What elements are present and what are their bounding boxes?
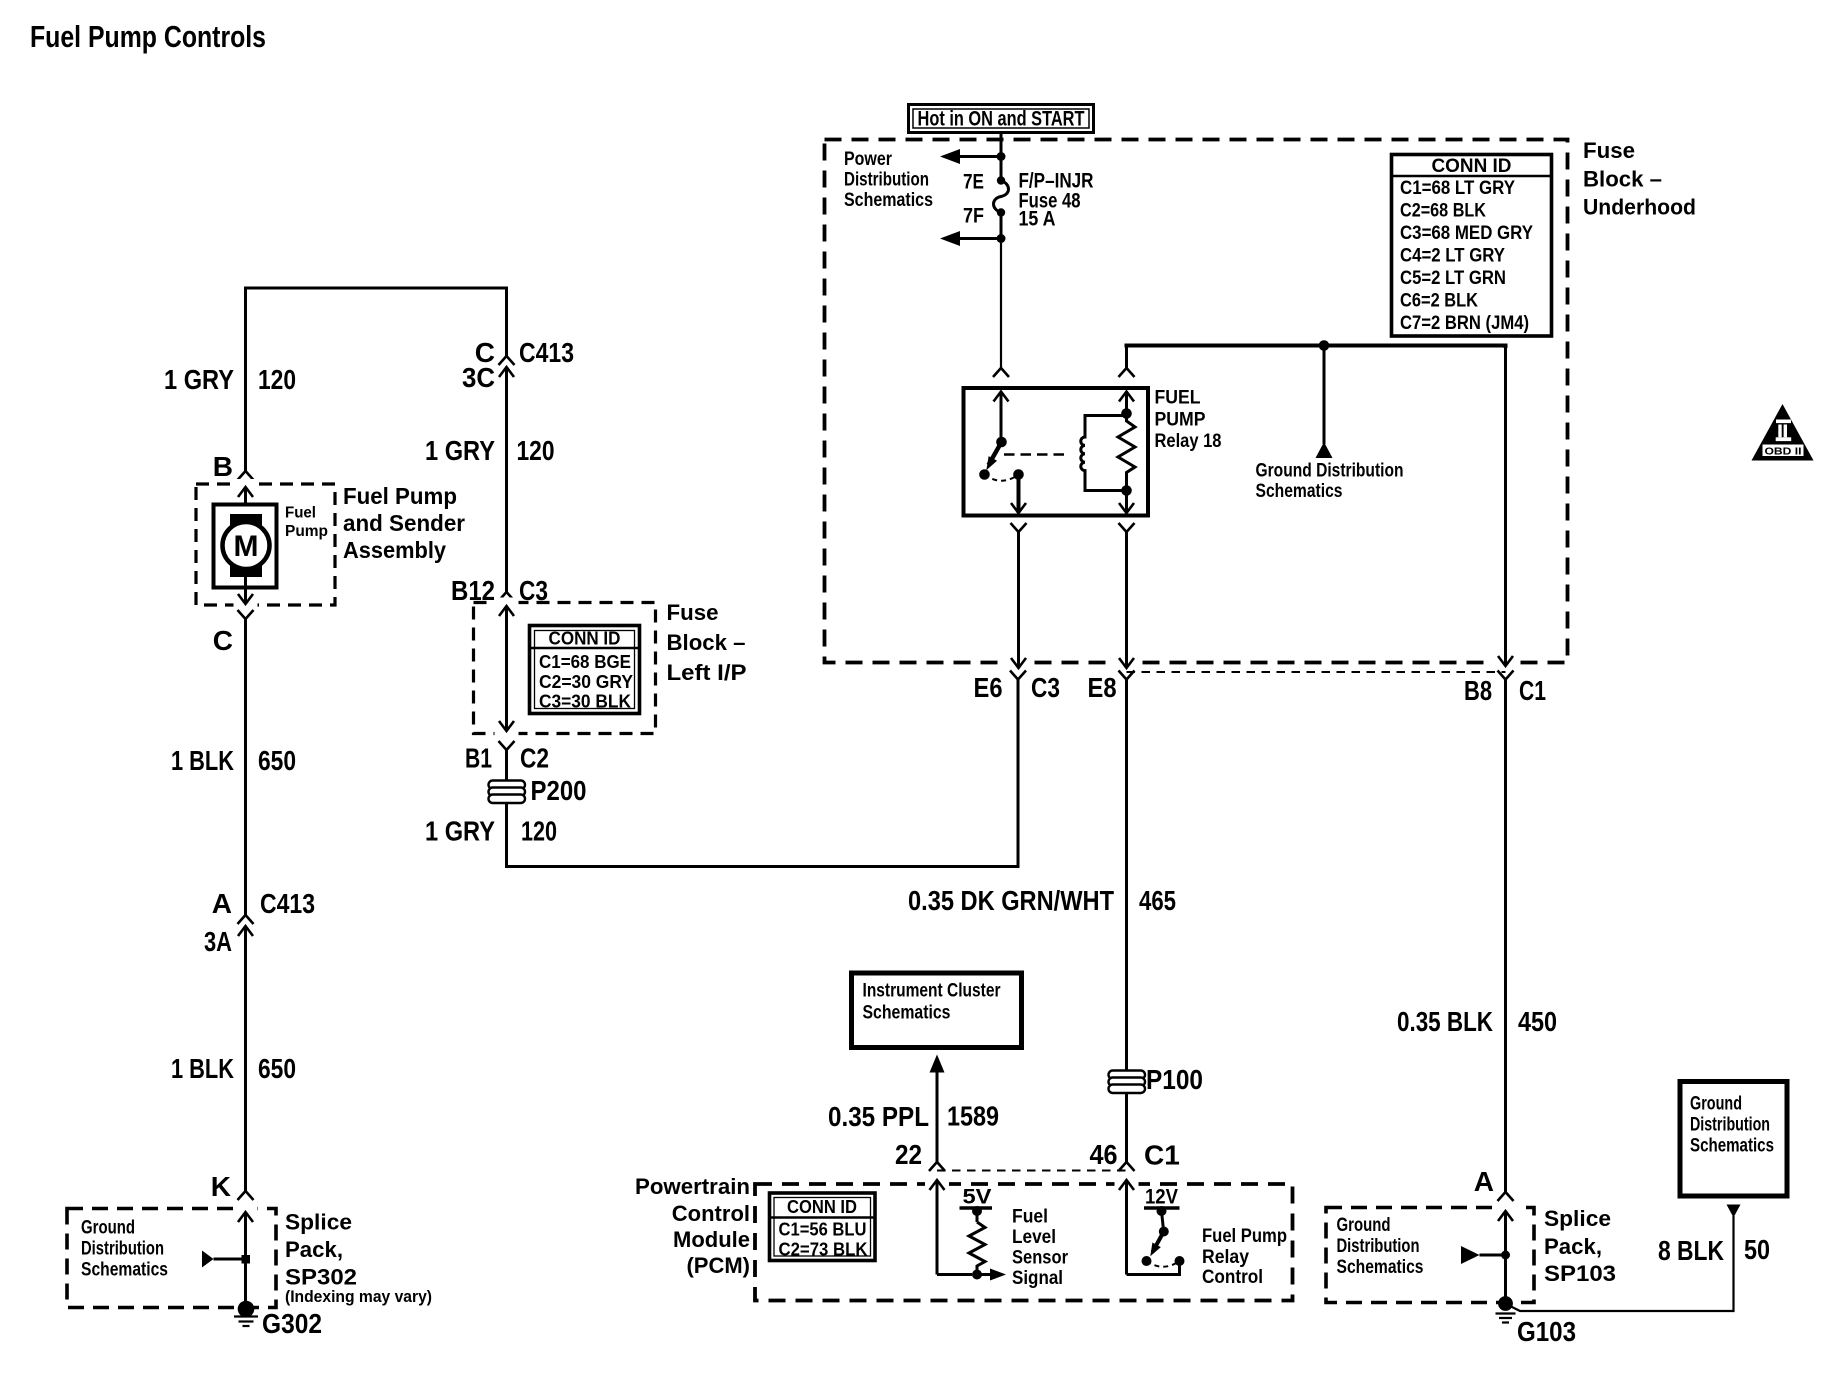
svg-text:Pack,: Pack, [1544,1234,1602,1259]
svg-text:450: 450 [1518,1006,1557,1037]
label 7E 7F [963,171,984,228]
svg-text:Powertrain: Powertrain [635,1174,750,1199]
svg-text:1 GRY: 1 GRY [425,816,495,847]
label 1 BLK 650 [171,745,296,776]
label Fuse Block Left IP [667,600,747,685]
conn id table pcm [770,1193,876,1261]
svg-text:8 BLK: 8 BLK [1658,1235,1724,1266]
wire 8 BLK 50 run to ground distribution [1509,1216,1734,1311]
svg-text:1589: 1589 [947,1101,999,1132]
label Fuel Pump Relay Control [1202,1226,1287,1288]
svg-text:0.35 BLK: 0.35 BLK [1397,1006,1493,1037]
svg-text:Ground Distribution: Ground Distribution [1256,461,1404,482]
svg-text:C413: C413 [519,337,574,368]
label 1 BLK 650 lower [171,1053,296,1084]
svg-text:Control: Control [1202,1267,1263,1288]
fuse block left IP dashed box [474,603,656,734]
connector B arrow into assembly [238,487,253,516]
svg-text:B8: B8 [1464,675,1492,706]
label 8 BLK 50 [1658,1234,1770,1266]
arrow to power distribution lower [940,231,1006,246]
svg-text:Distribution: Distribution [1337,1236,1420,1257]
sensor signal arrow right [977,1269,1006,1281]
connector K fork [238,1191,254,1200]
svg-text:Left I/P: Left I/P [667,660,747,685]
relay left pin arrow [994,392,1009,443]
svg-text:Sensor: Sensor [1012,1248,1069,1269]
label C C413 3C [462,337,574,393]
ground G302 [234,1301,258,1326]
relay switch dashed travel arc [985,475,1019,481]
label F/P-INJR Fuse 48 15 A [1019,170,1094,231]
svg-text:CONN ID: CONN ID [787,1197,857,1217]
wire B8 drop [1504,346,1507,657]
svg-text:Signal: Signal [1012,1268,1063,1289]
relay switch output arrow [1011,475,1026,514]
wire gap left IP border crossings [495,598,519,608]
fuse block underhood dashed box [825,140,1568,663]
ground distribution schematics solid box [1680,1082,1787,1197]
svg-text:3A: 3A [204,926,232,957]
label Fuse Block Underhood [1583,138,1696,220]
svg-text:Pump: Pump [285,523,328,540]
fuse 48 F/P-INJR symbol [994,176,1009,216]
pcm pin 46 arrow and wire [1119,1180,1180,1276]
wire gap SP103 border crossing [1494,1203,1518,1213]
reference triangle down 8 BLK [1727,1205,1741,1218]
svg-text:C1: C1 [1144,1140,1180,1171]
ground G103 [1496,1296,1516,1322]
label Fuel Pump and Sender Assembly [343,483,465,563]
svg-text:Fuse: Fuse [667,600,719,625]
svg-text:C2=68 BLK: C2=68 BLK [1400,201,1486,222]
svg-text:Fuel Pump Controls: Fuel Pump Controls [30,19,266,54]
wire 1589 to instrument cluster with solid arrow [930,1055,945,1163]
label FUEL PUMP Relay 18 [1155,388,1222,453]
svg-text:G302: G302 [262,1308,322,1339]
wire gap assembly border crossings [234,479,258,489]
svg-text:Instrument Cluster: Instrument Cluster [863,981,1001,1002]
wire gap PCM border crossings [925,1179,949,1189]
svg-text:C6=2 BLK: C6=2 BLK [1400,291,1478,312]
svg-text:Pack,: Pack, [285,1237,343,1262]
svg-text:Distribution: Distribution [844,170,929,191]
label 0.35 BLK 450 [1397,1006,1557,1037]
splice pointer triangle SP103 [1461,1246,1510,1264]
svg-text:C4=2 LT GRY: C4=2 LT GRY [1400,246,1505,267]
wire 1 GRY 120 left vertical [244,287,247,472]
label Splice Pack SP103 [1544,1206,1616,1286]
node rail junction [1319,340,1330,351]
relay coil suppression resistor [1118,414,1135,491]
splice pack SP103 dashed box [1326,1208,1534,1303]
svg-text:Schematics: Schematics [1256,481,1343,502]
svg-text:Assembly: Assembly [343,537,446,563]
svg-text:C5=2 LT GRN: C5=2 LT GRN [1400,268,1506,289]
svg-text:650: 650 [258,1053,296,1084]
label Power Distribution Schematics [844,149,933,211]
label Fuel Pump (inside assembly) [285,505,328,541]
svg-text:M: M [234,530,259,563]
node sensor junction [972,1270,982,1280]
svg-text:Distribution: Distribution [81,1239,164,1260]
svg-text:Block –: Block – [667,630,746,655]
svg-text:C: C [213,625,233,656]
svg-text:650: 650 [258,745,296,776]
svg-text:0.35 PPL: 0.35 PPL [828,1101,929,1132]
svg-text:50: 50 [1744,1234,1770,1265]
svg-text:120: 120 [258,364,296,395]
svg-text:E8: E8 [1088,672,1117,703]
relay switch blade [982,442,1001,473]
svg-text:and Sender: and Sender [343,510,465,536]
svg-text:Fuel: Fuel [1012,1207,1048,1228]
pcm driver switch contact [1175,1256,1185,1266]
connector fork into relay right pin [1119,347,1135,377]
svg-text:5V: 5V [963,1186,992,1209]
connector A C413 inline [238,915,254,1191]
svg-text:C1: C1 [1519,675,1546,706]
relay switch throw contact [1013,469,1024,480]
svg-text:FUEL: FUEL [1155,388,1201,409]
svg-text:3C: 3C [462,362,495,393]
label Ground Distribution Schematics SP103 [1337,1215,1424,1278]
svg-text:120: 120 [521,816,557,847]
svg-text:Relay 18: Relay 18 [1155,431,1222,452]
pcm pin 22 arrow and wire [930,1180,973,1275]
hot in on and start box [909,105,1094,133]
connector fork into relay left pin [993,368,1009,377]
wire motor to C with arrow down [238,577,253,604]
splice pointer triangle SP302 [202,1251,250,1268]
svg-text:Schematics: Schematics [863,1003,951,1024]
wire top rail left circuit [246,287,507,290]
label 0.35 PPL 1589 [828,1101,999,1133]
svg-text:E6: E6 [974,672,1003,703]
pcm 12V supply bar [1144,1206,1180,1230]
svg-text:C3=30 BLK: C3=30 BLK [539,691,632,712]
label Ground Distribution Schematics SP302 [81,1218,168,1281]
svg-text:Relay: Relay [1202,1247,1249,1268]
label B8 C1 [1464,675,1546,706]
wire P200 to E6 horizontal run [507,679,1019,867]
label Splice Pack SP302 [285,1210,432,1307]
wire C413 branch vertical upper [505,287,508,357]
arrow to power distribution upper [940,149,1006,164]
svg-text:Power: Power [844,149,892,170]
svg-text:C2=30 GRY: C2=30 GRY [539,671,634,692]
svg-text:OBD II: OBD II [1765,446,1802,458]
svg-text:46: 46 [1090,1139,1118,1170]
svg-text:C3=68 MED GRY: C3=68 MED GRY [1400,223,1533,244]
fuel pump and sender assembly dashed box [196,484,335,605]
wire gap underhood bottom crossings [1007,657,1031,669]
svg-text:B: B [213,451,233,482]
wire fuse to lower junction [1000,213,1003,239]
label E6 C3 [974,672,1061,703]
wire into SP302 with arrow [238,1212,253,1305]
label 46 C1 [1090,1139,1180,1171]
label 1 GRY 120 [164,364,296,395]
label B1 C2 [465,743,549,774]
svg-text:0.35 DK GRN/WHT: 0.35 DK GRN/WHT [908,885,1114,916]
svg-text:12V: 12V [1145,1186,1178,1209]
relay switch NO contact [979,469,990,480]
relay dashed actuation link [1004,453,1070,455]
svg-text:1 GRY: 1 GRY [164,364,234,395]
label Powertrain Control Module PCM [635,1174,750,1278]
svg-text:Schematics: Schematics [844,190,933,211]
relay coil top node [1121,408,1132,419]
label 0.35 DK GRN/WHT 465 [908,885,1176,916]
svg-text:Schematics: Schematics [1337,1257,1424,1278]
svg-text:K: K [211,1171,231,1202]
svg-text:Distribution: Distribution [1690,1115,1770,1136]
svg-text:CONN ID: CONN ID [1432,156,1512,177]
svg-text:Block –: Block – [1583,167,1662,192]
connector fork below relay right output [1119,523,1135,532]
pcm switch dashed travel arc [1147,1261,1180,1267]
connector C fork [238,610,254,915]
svg-text:C2=73 BLK: C2=73 BLK [779,1240,868,1260]
pcm fuel level sense resistor [969,1222,985,1272]
svg-text:B12: B12 [451,575,495,606]
label B12 C3 [451,575,548,606]
svg-text:Ground: Ground [81,1218,135,1239]
svg-text:Fuel Pump: Fuel Pump [1202,1226,1287,1247]
connector E8 exit [1119,532,1135,1070]
pcm 5V supply bar [960,1206,993,1222]
svg-text:Control: Control [672,1201,750,1226]
connector C1 span dashed line [1127,671,1506,673]
splice pack SP302 dashed box [67,1209,276,1308]
instrument cluster schematics box [852,973,1022,1048]
connector fork below relay left output [1011,523,1027,532]
svg-text:Hot in ON and START: Hot in ON and START [918,108,1085,131]
svg-text:1 BLK: 1 BLK [171,1053,234,1084]
svg-text:Module: Module [673,1227,750,1252]
label A C413 [204,888,315,957]
svg-text:Splice: Splice [1544,1206,1611,1231]
svg-text:C7=2 BRN (JM4): C7=2 BRN (JM4) [1400,313,1529,334]
splice P200 [489,781,526,804]
svg-text:15 A: 15 A [1019,208,1056,231]
svg-text:1 GRY: 1 GRY [425,435,495,466]
wire into SP103 with arrow [1498,1211,1513,1300]
wire hot feed vertical [1000,131,1003,180]
svg-text:C1=68 BGE: C1=68 BGE [539,651,631,672]
svg-text:465: 465 [1139,885,1176,916]
svg-text:C3: C3 [1031,672,1060,703]
connector B fork [238,471,254,480]
splice P100 [1109,1071,1146,1094]
label Ground Distribution Schematics (relay) [1256,461,1404,503]
svg-text:Schematics: Schematics [81,1260,168,1281]
svg-text:G103: G103 [1517,1316,1576,1347]
svg-text:7E: 7E [963,171,984,194]
fuel pump motor M [214,505,277,588]
label 1 GRY 120 right branch [425,435,555,466]
svg-text:SP302: SP302 [285,1265,357,1290]
svg-text:1 BLK: 1 BLK [171,745,234,776]
relay box FUEL PUMP Relay 18 [964,388,1149,516]
wire B+ rail from relay to B8 [1125,346,1506,349]
wire gap SP302 border crossing [234,1204,258,1214]
svg-text:Level: Level [1012,1227,1056,1248]
svg-text:C2: C2 [520,743,549,774]
svg-text:(Indexing may vary): (Indexing may vary) [285,1288,432,1306]
connector A fork SP103 [1498,1192,1514,1201]
wire fuse output down to relay [1000,239,1002,369]
svg-text:CONN ID: CONN ID [549,628,621,649]
svg-text:C413: C413 [260,888,315,919]
connector B8 C1 exit [1498,656,1514,1192]
connector pin22 pin46 dashed span [937,1170,1127,1172]
connector B12 C3 fork [499,592,515,601]
relay switch pivot [996,437,1007,448]
svg-text:PUMP: PUMP [1155,410,1206,431]
svg-text:C1=56 BLU: C1=56 BLU [779,1220,867,1240]
relay coil bottom node [1121,485,1132,496]
svg-text:A: A [212,888,232,919]
connector E6 C3 exit [1010,531,1026,680]
ground distribution reference drop [1316,346,1333,459]
connector B1 C2 fork [499,741,515,867]
pcm driver switch blade [1142,1227,1169,1267]
connector C413 inline (C / 3C) [499,356,515,592]
label 1 GRY 120 below P200 [425,816,557,847]
svg-text:Fuse: Fuse [1583,138,1635,163]
svg-text:Underhood: Underhood [1583,195,1696,220]
svg-text:B1: B1 [465,743,492,774]
svg-text:Ground: Ground [1690,1094,1742,1115]
svg-text:(PCM): (PCM) [686,1253,750,1278]
connector pin 22 fork [929,1162,945,1171]
svg-text:P200: P200 [531,775,587,806]
obd ii symbol [1752,404,1814,461]
svg-text:C1=68 LT GRY: C1=68 LT GRY [1400,178,1515,199]
svg-text:Fuel: Fuel [285,505,316,522]
svg-text:Ground: Ground [1337,1215,1391,1236]
wire P100 to PCM pin 46 [1125,1093,1128,1162]
svg-text:22: 22 [895,1139,922,1170]
connector pin 46 fork [1119,1162,1135,1171]
svg-text:Fuel Pump: Fuel Pump [343,483,457,509]
svg-text:Schematics: Schematics [1690,1136,1774,1157]
relay coil [1081,416,1127,491]
svg-text:A: A [1474,1166,1494,1197]
conn id table left IP [530,626,640,714]
svg-text:SP103: SP103 [1544,1261,1616,1286]
svg-text:P100: P100 [1146,1064,1203,1095]
label Fuel Level Sensor Signal [1012,1207,1069,1290]
relay right pin arrow top [1119,392,1134,414]
wire through fuse block left IP double arrow [499,606,514,731]
pcm dashed box [755,1184,1293,1301]
relay coil output arrow bottom [1119,491,1134,514]
svg-text:120: 120 [517,435,555,466]
svg-text:Splice: Splice [285,1210,352,1235]
conn id table underhood [1392,155,1552,337]
svg-text:7F: 7F [963,205,984,228]
